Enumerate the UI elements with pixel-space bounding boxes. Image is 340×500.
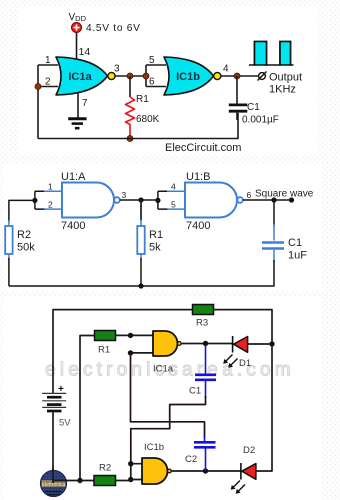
capacitor C1 top lead xyxy=(205,345,207,374)
nand U1:A xyxy=(62,183,114,218)
node junction dot output xyxy=(271,197,276,202)
svg-text:1uF: 1uF xyxy=(288,250,307,262)
svg-text:R3: R3 xyxy=(196,318,208,329)
svg-text:7400: 7400 xyxy=(61,220,85,232)
led D2 cathode bar xyxy=(240,463,242,480)
wire C1 to IC1b inputs xyxy=(131,396,206,464)
inversion bubble IC1a xyxy=(177,342,181,346)
svg-text:4: 4 xyxy=(171,182,176,192)
output terminal xyxy=(258,72,267,81)
svg-text:14: 14 xyxy=(79,46,91,58)
wire IC1a inputs to C2 xyxy=(131,353,205,438)
svg-text:U1:B: U1:B xyxy=(186,171,210,183)
wire input bracket IC1a xyxy=(38,65,58,139)
svg-text:4: 4 xyxy=(223,64,229,75)
wire bottom rail xyxy=(53,480,131,482)
svg-text:3: 3 xyxy=(114,64,120,75)
wire D2 to right rail xyxy=(256,344,272,471)
wire battery minus to bottom rail xyxy=(52,411,54,481)
led D1 xyxy=(234,337,248,353)
svg-text:R2: R2 xyxy=(17,229,31,241)
svg-text:Output: Output xyxy=(269,72,302,84)
svg-text:4.5V to 6V: 4.5V to 6V xyxy=(86,23,141,34)
resistor R2 leads xyxy=(8,220,10,260)
svg-text:R1: R1 xyxy=(98,345,110,356)
wire inner rail to R1 xyxy=(80,336,94,481)
square wave icon xyxy=(249,42,294,66)
svg-text:5: 5 xyxy=(149,55,155,66)
svg-text:U1:A: U1:A xyxy=(61,171,86,183)
wire IC1a output xyxy=(181,343,232,345)
node junction dot pin3 xyxy=(127,73,133,79)
svg-text:C1: C1 xyxy=(189,386,201,397)
svg-text:ElecCircuit.com: ElecCircuit.com xyxy=(165,142,241,154)
node junction dot IC1a pin2 xyxy=(128,350,133,355)
D1 emission arrows xyxy=(226,355,238,366)
op: NOR gate IC1b xyxy=(164,57,214,95)
svg-text:R1: R1 xyxy=(149,229,163,241)
nand IC1b xyxy=(142,458,168,484)
resistor R1 5k xyxy=(137,226,144,254)
svg-text:IC1a: IC1a xyxy=(153,364,174,375)
node junction dot inner rail bottom xyxy=(77,478,82,483)
node junction dot IC1b input xyxy=(143,73,149,79)
wire to R2 xyxy=(9,200,35,222)
svg-text:IC1b: IC1b xyxy=(176,71,200,83)
resistor R1 leads xyxy=(140,200,142,260)
wire R1 to bottom rail xyxy=(140,258,142,286)
capacitor C2 plates xyxy=(194,442,216,447)
resistor R2 50k xyxy=(5,226,12,254)
capacitor C1 top lead xyxy=(273,200,275,226)
wire top rail xyxy=(53,310,272,393)
capacitor C1 plates xyxy=(262,243,284,249)
led D2 xyxy=(242,464,256,480)
wire input bracket IC1b xyxy=(146,65,166,87)
node junction dot right rail xyxy=(269,341,274,346)
wire input bracket IC1b xyxy=(131,464,142,480)
svg-text:1: 1 xyxy=(45,55,51,66)
logo badge xyxy=(41,467,68,497)
resistor R3 xyxy=(193,305,214,315)
op: NOR gate IC1a xyxy=(56,57,108,95)
node junction dot R1 bottom xyxy=(138,283,143,288)
svg-text:50k: 50k xyxy=(17,242,35,254)
node junction dot U1:A input xyxy=(32,198,37,203)
SECTION2 : 7400 NAND oscillator xyxy=(3,163,321,292)
wire IC1a output to IC1b inputs xyxy=(115,75,146,77)
svg-text:1: 1 xyxy=(48,182,53,192)
svg-text:1KHz: 1KHz xyxy=(269,84,296,96)
svg-text:IC1a: IC1a xyxy=(68,71,92,83)
wire input bracket U1:B xyxy=(158,191,168,209)
node junction dot U1:B input xyxy=(155,198,160,203)
led D1 cathode bar xyxy=(232,336,234,353)
svg-text:D2: D2 xyxy=(243,445,255,456)
node junction dot left bracket xyxy=(35,84,41,90)
node junction dot C2 bottom xyxy=(203,468,208,473)
node junction dot IC1b pin1 xyxy=(128,461,133,466)
wire IC1b output xyxy=(171,470,241,472)
wire R2 to bottom rail xyxy=(8,258,10,286)
node junction dot R1 top xyxy=(138,197,143,202)
svg-text:7400: 7400 xyxy=(186,220,210,232)
resistor R1 top lead xyxy=(129,76,131,97)
inversion bubble U1:B xyxy=(237,197,243,203)
wire R1 to IC1a inputs xyxy=(116,334,154,336)
svg-text:C1: C1 xyxy=(247,102,260,113)
svg-text:6: 6 xyxy=(247,190,252,200)
wire D1 to right rail xyxy=(248,343,272,345)
resistor R1 zigzag 680K xyxy=(126,97,135,139)
node junction dot IC1a pin1 xyxy=(128,333,133,338)
node junction dot output xyxy=(234,73,240,79)
svg-text:IC1b: IC1b xyxy=(144,442,164,453)
node junction dot IC1b pin2 xyxy=(128,477,133,482)
wire U1:A output xyxy=(120,199,158,201)
inversion bubble IC1b xyxy=(168,469,172,473)
SECTION1 : CMOS NOR oscillator xyxy=(18,7,318,155)
svg-text:R1: R1 xyxy=(136,94,149,105)
nand U1:B xyxy=(185,183,237,218)
wire VDD to pin 14 xyxy=(76,33,78,60)
svg-text:5k: 5k xyxy=(149,242,161,254)
supply terminal VDD xyxy=(72,23,82,33)
svg-text:7: 7 xyxy=(82,98,88,109)
D2 emission arrows xyxy=(233,481,245,492)
wire IC1b output to terminal xyxy=(221,75,259,77)
svg-text:Square wave: Square wave xyxy=(255,189,314,200)
svg-text:5V: 5V xyxy=(59,418,71,429)
svg-text:D1: D1 xyxy=(239,358,251,369)
capacitor C1 lead xyxy=(236,76,238,120)
wire bottom rail xyxy=(9,260,274,286)
ground xyxy=(68,119,86,128)
svg-text:0.001µF: 0.001µF xyxy=(242,115,279,126)
resistor R2 xyxy=(94,476,116,486)
inversion bubble IC1b output xyxy=(214,72,221,79)
node endpoint dot xyxy=(289,197,294,202)
svg-text:680K: 680K xyxy=(136,114,160,125)
svg-text:3: 3 xyxy=(122,190,127,200)
capacitor C1 bottom lead xyxy=(205,381,207,398)
svg-text:C1: C1 xyxy=(288,237,302,249)
capacitor C1 bottom lead xyxy=(273,250,275,262)
wire bottom rail xyxy=(38,113,238,139)
inversion bubble IC1a output xyxy=(108,72,115,79)
pin 7 wire xyxy=(77,94,79,119)
capacitor C1 plates xyxy=(229,105,248,111)
node junction dot R1 bottom xyxy=(127,136,133,142)
capacitor C2 bottom lead xyxy=(205,449,207,472)
capacitor C2 top lead xyxy=(204,436,206,441)
node junction dot IC1a output xyxy=(203,341,208,346)
svg-text:6: 6 xyxy=(149,77,155,88)
SECTION3 : LED flasher xyxy=(3,296,321,500)
resistor R1 xyxy=(95,331,116,341)
capacitor C1 plates xyxy=(195,375,216,380)
nand IC1a xyxy=(153,331,178,356)
wire input bracket U1:A xyxy=(35,191,45,209)
wire U1:B output xyxy=(243,199,292,201)
svg-text:R2: R2 xyxy=(99,463,111,474)
inversion bubble U1:A xyxy=(114,197,120,203)
svg-text:2: 2 xyxy=(45,77,51,88)
battery 5V xyxy=(42,393,66,411)
svg-text:VDD: VDD xyxy=(69,12,87,23)
svg-text:2: 2 xyxy=(48,200,53,210)
svg-text:C2: C2 xyxy=(185,454,197,465)
svg-text:5: 5 xyxy=(171,200,176,210)
